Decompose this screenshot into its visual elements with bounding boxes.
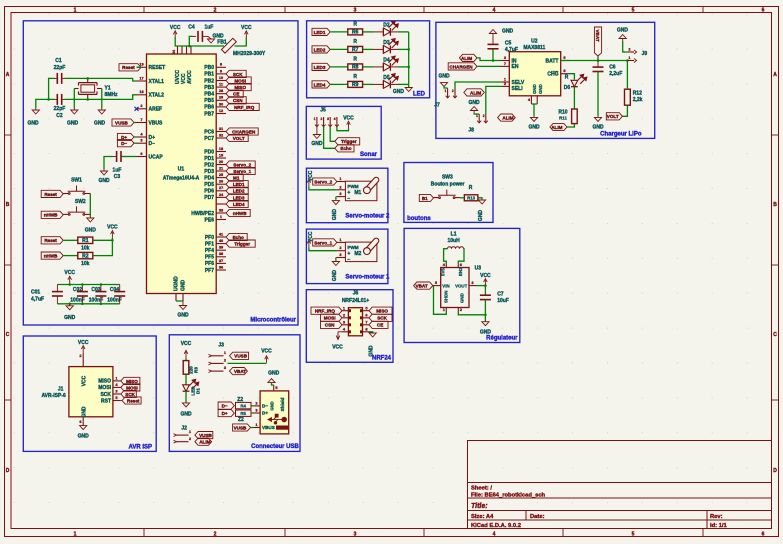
power VCC [347,121,351,128]
pin 8 PB0 [216,66,226,68]
ground [594,116,601,121]
svg-text:Reset: Reset [44,192,57,197]
svg-text:LED1: LED1 [233,182,245,187]
power VCC [245,31,249,38]
section box LED [307,21,430,98]
wire [175,37,192,46]
power VCC [484,279,488,286]
hierarchical label MISO [226,84,251,91]
svg-text:D−: D− [149,141,156,147]
svg-text:GND: GND [82,406,88,418]
svg-text:VCC: VCC [241,25,252,31]
j1 pins [82,353,84,367]
wire [622,105,627,116]
svg-text:GND: GND [270,401,275,410]
svg-text:Sheet: /: Sheet: / [471,486,492,492]
svg-text:CSN: CSN [325,323,335,328]
svg-text:D: D [6,468,10,474]
svg-text:SCK: SCK [233,72,243,77]
svg-text:MISO: MISO [234,85,246,90]
svg-text:GND: GND [478,210,484,222]
global label Reset (SW1) [41,190,63,197]
svg-text:VCC: VCC [64,270,75,276]
wire [478,198,482,199]
svg-text:−: − [347,196,350,202]
wire servo gnd [336,257,337,259]
svg-text:PB6: PB6 [204,105,214,111]
junction [68,283,71,286]
svg-text:J1: J1 [58,386,64,392]
global label VUSB (J3) [230,352,249,359]
junction [100,303,103,306]
svg-text:GND: GND [438,74,450,80]
global label LED1 [312,28,330,35]
global label ALIM (J8) [498,114,516,121]
ground above C5 [489,30,496,36]
svg-text:GND: GND [78,434,90,440]
wire [330,31,348,33]
ground [369,333,376,337]
pin 10 PB2 [216,80,226,82]
wire [324,127,335,149]
power VCC [173,31,177,38]
ground [179,303,186,310]
svg-text:VCC: VCC [107,225,118,231]
wire [398,66,409,68]
svg-text:A: A [773,72,777,78]
wire [363,83,373,85]
svg-text:22pF: 22pF [54,65,66,71]
section box Servo-moteur 1 [306,229,388,284]
wire [484,286,486,296]
svg-text:Echo: Echo [340,146,351,151]
svg-text:VOLT: VOLT [607,114,619,119]
hierarchical label M1 [226,174,243,181]
motor M2 pins [337,241,346,243]
hierarchical label MISO (nrf) [369,307,392,314]
svg-text:1: 1 [314,117,316,121]
svg-text:4: 4 [493,532,496,538]
svg-text:SW3: SW3 [442,175,453,181]
svg-text:34: 34 [172,50,176,54]
pin 29 PB5 [216,99,226,101]
section box Microcontroleur [23,21,298,325]
hierarchical label LED2 [226,187,248,194]
wire [569,74,574,80]
svg-text:GND: GND [94,121,106,127]
svg-text:GND: GND [85,228,97,234]
svg-text:VIN: VIN [442,283,449,288]
wire [49,78,55,99]
svg-text:PD6: PD6 [204,189,214,195]
svg-text:D4: D4 [383,58,390,64]
svg-text:R: R [353,39,357,45]
wire [137,66,142,68]
section box Regulateur [404,228,520,342]
svg-text:LED4: LED4 [233,202,245,207]
junction [407,66,410,69]
svg-text:U2: U2 [531,39,538,45]
svg-text:ALIM: ALIM [470,90,481,95]
wire [63,255,78,257]
junction [111,239,114,242]
svg-text:PD7: PD7 [204,195,214,201]
hierarchical label Trigger [226,240,255,247]
svg-text:4: 4 [493,8,496,14]
svg-text:Size: A4: Size: A4 [471,514,494,520]
svg-text:VOLT: VOLT [233,136,245,141]
svg-text:SCK: SCK [125,392,135,397]
svg-text:D6: D6 [564,85,571,91]
hierarchical label Echo (sonar) [335,145,354,152]
svg-text:C1: C1 [55,58,62,64]
svg-text:ALIM: ALIM [461,56,472,61]
svg-text:GND: GND [393,89,405,95]
wire [561,60,628,62]
pin 27 PD6 [216,190,226,192]
wire D4 to rail [390,66,398,68]
junction [47,98,50,101]
svg-text:SCK: SCK [377,316,387,321]
svg-text:MISO: MISO [376,309,388,314]
global label CHARGEN [448,63,477,70]
svg-text:7: 7 [365,320,367,325]
svg-text:LED4: LED4 [314,82,326,87]
svg-text:GND: GND [332,209,338,221]
pin 21 PD3 [216,170,226,172]
ground gnd C4 [202,35,208,37]
hierarchical label nHWB [226,209,250,216]
svg-text:D+: D+ [149,135,156,141]
svg-text:PB7: PB7 [204,111,214,117]
wire [309,186,337,190]
wire [93,238,113,256]
svg-text:VBAT: VBAT [595,30,600,42]
section box boutons [404,163,493,223]
svg-text:VBUS: VBUS [262,425,275,430]
svg-text:XTAL1: XTAL1 [149,79,165,85]
hierarchical label CE (nrf) [369,321,388,328]
svg-text:2,2k: 2,2k [633,97,643,103]
wire [57,303,119,305]
pin 17 XTAL1 [137,80,147,82]
svg-text:VCC: VCC [181,341,192,347]
svg-text:MOSI: MOSI [324,316,336,321]
resistor R7 R [348,46,363,52]
power VCC [307,240,311,247]
motor M2 [345,242,377,262]
global label D- [117,140,134,147]
svg-text:Trigger: Trigger [341,139,357,144]
svg-text:D1: D1 [196,388,201,394]
hierarchical label SCK (isp) [121,390,137,397]
wire [626,61,628,89]
wire [185,357,187,360]
svg-text:2,2uF: 2,2uF [609,71,622,77]
svg-text:GND: GND [180,412,192,418]
svg-text:AREF: AREF [149,107,163,113]
pin 6 UCAP [137,156,147,158]
svg-text:Servo_2: Servo_2 [233,162,251,167]
svg-text:B: B [773,202,777,208]
svg-text:VCC: VCC [480,273,491,279]
svg-text:C: C [6,332,10,338]
svg-text:R: R [353,22,357,28]
svg-text:RESET: RESET [149,65,166,71]
global label LED2 [312,46,330,53]
global label VUSB (usb vbus) [233,424,251,431]
ground [207,39,214,43]
wire [65,78,137,81]
svg-text:Servo_2: Servo_2 [314,179,332,184]
power VCC [307,179,311,186]
svg-text:7: 7 [504,61,506,66]
wire [474,113,479,114]
svg-text:Reset: Reset [44,238,57,243]
u2 pins [501,60,509,62]
svg-text:AVR ISP: AVR ISP [128,445,152,451]
power VCC [68,276,72,283]
svg-text:Rev:: Rev: [710,514,723,520]
ground [530,116,537,121]
svg-text:PB5: PB5 [204,98,214,104]
svg-text:NRF_IRQ: NRF_IRQ [315,309,336,314]
usb pins left [254,405,261,407]
svg-text:A: A [6,72,10,78]
wire [597,56,599,61]
hierarchical label LED4 [226,200,248,207]
svg-text:LED3: LED3 [314,65,326,70]
svg-text:Sonar: Sonar [360,152,378,158]
svg-text:ALIM: ALIM [551,125,562,130]
global label LED4 [312,81,330,88]
section box NRF24 [306,290,393,363]
power VCC [111,231,115,238]
svg-text:R: R [353,74,357,80]
svg-text:CE: CE [377,323,383,328]
svg-text:PWM: PWM [347,245,358,250]
global label B1 [419,194,433,201]
ground [100,169,107,175]
mcu top pins UVCC VCC AVCC [177,46,179,54]
svg-text:D5: D5 [383,75,390,81]
svg-text:Servo-moteur 2: Servo-moteur 2 [345,214,390,220]
svg-text:SW2: SW2 [75,199,86,205]
svg-text:Title:: Title: [471,503,488,510]
svg-text:LED1: LED1 [314,30,326,35]
pin 32 PC7 [216,137,226,139]
pin 33 HWB/PE2 [216,212,226,214]
svg-text:PE6: PE6 [205,217,215,223]
pin 18 PD0 [216,151,226,153]
svg-text:J3: J3 [218,343,224,349]
pin 26 PD5 [216,183,226,185]
junction [492,59,495,62]
wire [101,89,103,109]
ground [66,304,73,310]
ground [478,199,485,204]
svg-text:10k: 10k [81,246,90,252]
svg-text:R13: R13 [467,196,476,201]
global label D+ (usb) [218,410,234,417]
wire [623,41,628,52]
svg-text:boutons: boutons [407,216,431,222]
svg-text:4,7uF: 4,7uF [31,297,44,303]
svg-text:nHWB: nHWB [44,254,58,259]
nrf pins 1/5 [342,310,348,312]
svg-text:Date:: Date: [530,514,545,520]
svg-text:VUSB: VUSB [234,425,247,430]
ground [80,426,87,430]
wire [337,127,349,131]
hierarchical label LED1 [226,181,248,188]
junction [86,77,89,80]
svg-text:C2: C2 [56,113,63,119]
global label ALIM (J2) [195,438,212,445]
led D1 [183,385,190,391]
svg-text:Servo-moteur 1: Servo-moteur 1 [345,275,390,281]
led D3 [382,46,384,54]
svg-text:U1: U1 [178,167,185,173]
global label ALIM (U2 IN) [459,54,477,61]
svg-text:MOSI: MOSI [98,385,111,391]
svg-text:AVR-ISP-6: AVR-ISP-6 [41,393,66,399]
ground [182,403,189,407]
svg-text:8MHz: 8MHz [105,92,119,98]
svg-text:22pF: 22pF [54,106,66,112]
svg-text:HWB/PE2: HWB/PE2 [191,211,214,217]
hierarchical label SCK (nrf) [369,314,392,321]
svg-text:Z2: Z2 [238,417,244,423]
global label Reset (RESET pin) [119,64,141,71]
mcu gnd [182,301,184,303]
svg-text:NRF24L01+: NRF24L01+ [342,298,369,304]
wire D5 to rail [390,83,398,85]
frame row ticks left/right [5,134,12,136]
svg-text:27: 27 [219,185,223,190]
wire [335,258,337,261]
svg-text:GND: GND [460,293,465,303]
wire [458,249,464,264]
usb connector J4 body [260,391,289,434]
svg-text:VUSB: VUSB [234,354,247,359]
svg-text:1: 1 [74,8,77,14]
pin 36 PF7 [216,269,226,271]
svg-text:4: 4 [334,117,336,121]
svg-text:1: 1 [445,89,447,93]
wire [251,405,254,407]
ground [405,88,412,92]
svg-text:D−: D− [222,404,228,409]
svg-text:BATT: BATT [546,58,559,64]
ferrite bead FB1 MH2029-300Y [221,38,236,53]
svg-text:R4: R4 [240,404,246,409]
nrf pins 4/8 [342,331,348,333]
no-connect AREF [135,107,139,111]
pin 1 PE6 [216,219,226,221]
ground [332,200,339,205]
wire [363,31,373,33]
junction [407,48,410,51]
wire [455,82,501,89]
svg-text:RST: RST [101,398,111,404]
wire [335,197,337,200]
svg-text:PD0: PD0 [204,149,214,155]
svg-text:FB1: FB1 [217,40,227,46]
svg-text:R6: R6 [352,30,359,36]
ic U2 MAX8811 [509,52,560,96]
wire D2 to rail [390,31,398,33]
svg-text:20: 20 [219,159,223,164]
svg-text:CE: CE [233,92,239,97]
svg-text:40: 40 [219,238,223,243]
svg-text:VBUS: VBUS [149,120,164,126]
svg-text:J5: J5 [320,108,326,114]
nrf pins 2/6 [342,317,348,319]
svg-text:U3: U3 [475,266,482,272]
svg-text:GND: GND [268,371,280,377]
pin 13 RESET [137,66,147,68]
svg-text:GND: GND [592,125,604,131]
svg-text:XTAL2: XTAL2 [149,93,165,99]
pin 11 PB3 [216,86,226,88]
pin 12 PB7 [216,113,226,115]
wire [398,83,409,85]
global label Reset (isp) [122,397,141,404]
svg-text:C: C [773,332,777,338]
hierarchical label VOLT [226,134,248,141]
svg-text:B: B [6,202,10,208]
svg-text:GND: GND [98,178,110,184]
wire [185,374,187,385]
connector J7 [447,89,449,98]
mcu bottom pins UGND GND [175,294,177,302]
frame column ticks top/bottom [143,7,145,13]
svg-text:R11: R11 [559,116,567,121]
pin 20 PD2 [216,164,226,166]
svg-text:VCC: VCC [82,375,88,386]
svg-text:3: 3 [354,532,357,538]
svg-text:M2: M2 [354,251,361,257]
wire [398,48,409,50]
wire D3 to rail [390,48,398,50]
u3 pins [445,264,447,268]
svg-text:VOUT: VOUT [455,283,468,288]
svg-text:R3: R3 [194,367,199,373]
global label Reset (R1) [41,237,63,244]
svg-text:EN2: EN2 [458,267,463,276]
svg-text:CSN: CSN [233,98,243,103]
svg-text:B1: B1 [422,196,428,201]
global label VOLT (charger) [606,113,622,120]
svg-text:NRF_IRQ: NRF_IRQ [234,105,255,110]
wire [567,124,574,127]
svg-text:M1: M1 [233,176,240,181]
svg-text:LED2: LED2 [233,189,245,194]
junction [100,283,103,286]
global label VBAT (flag) [594,27,601,56]
wire [121,156,137,158]
svg-text:D+: D+ [222,411,228,416]
svg-text:J9: J9 [642,51,648,57]
svg-text:1uF: 1uF [204,25,213,31]
wire [57,284,119,286]
svg-text:VUSB: VUSB [199,433,212,438]
section box Sonar [306,106,381,159]
svg-text:MOSI: MOSI [126,385,138,390]
svg-text:EN: EN [512,64,519,70]
pin 19 PD1 [216,157,226,159]
